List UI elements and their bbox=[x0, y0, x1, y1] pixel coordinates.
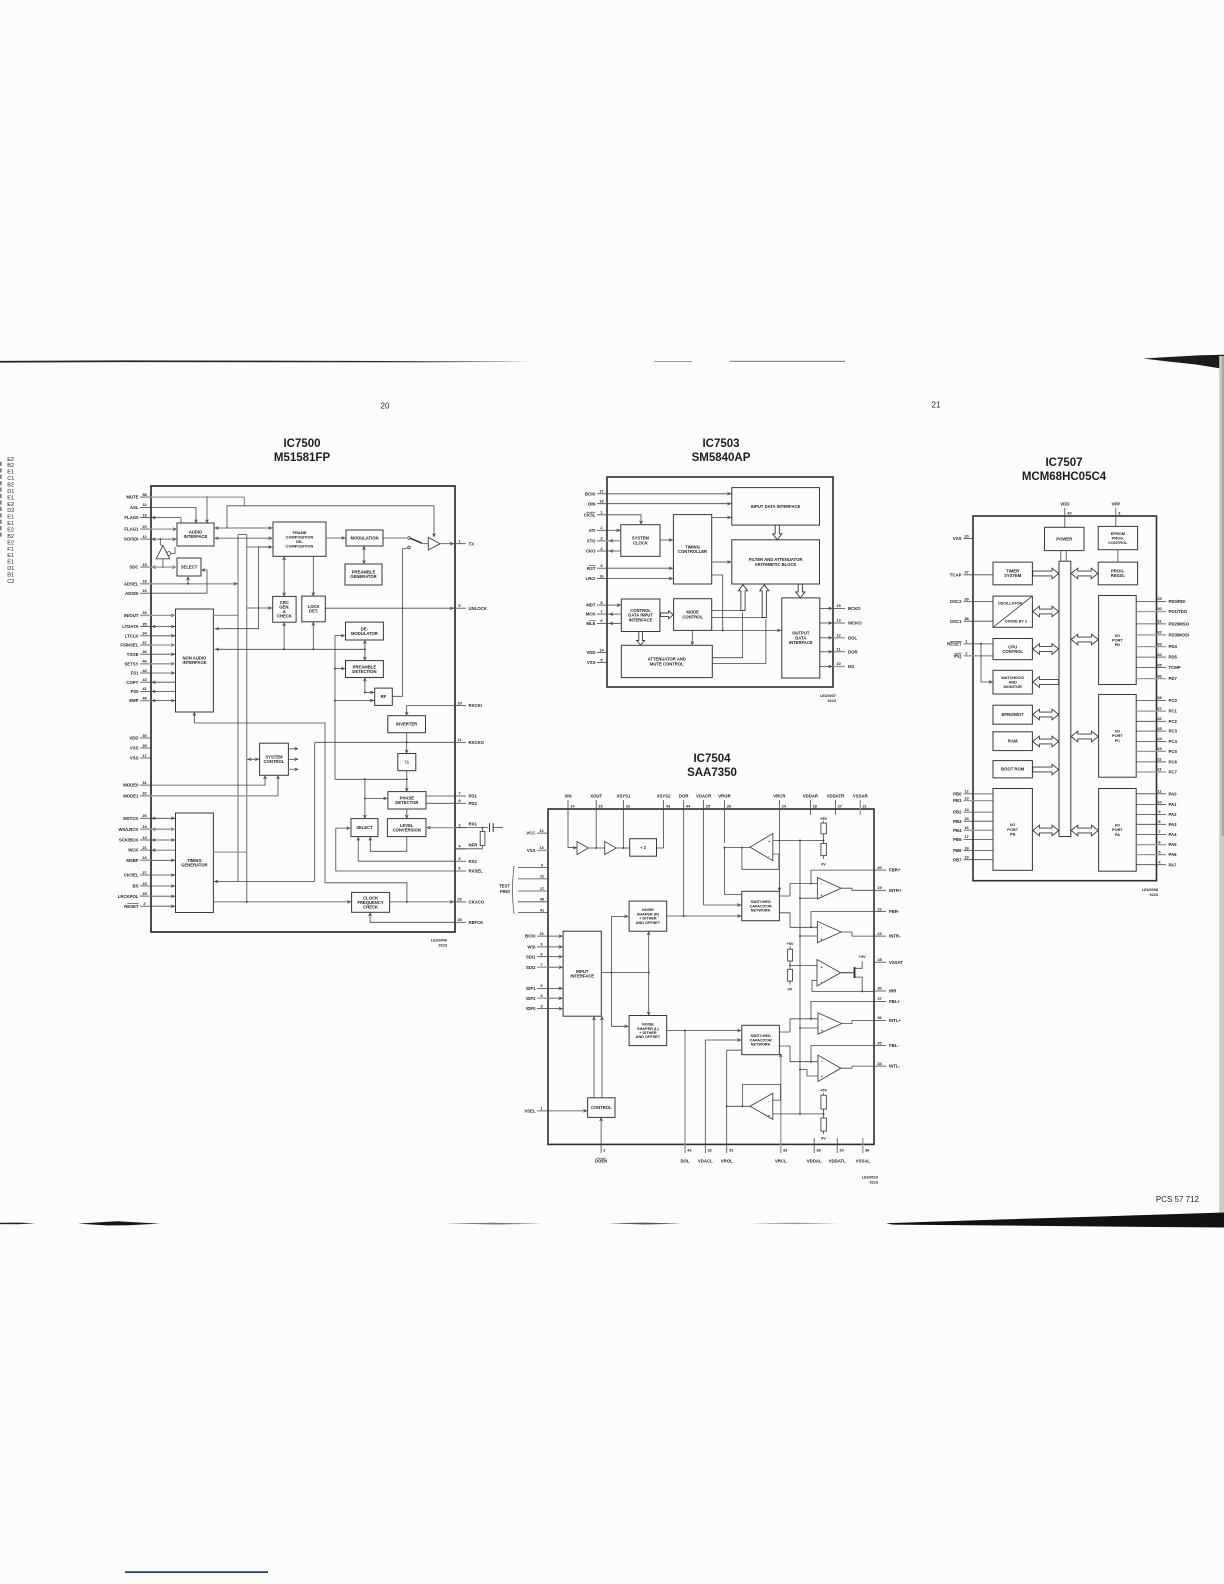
svg-text:30: 30 bbox=[1157, 606, 1161, 611]
svg-text:IDF2: IDF2 bbox=[526, 996, 536, 1001]
svg-text:GENERATOR: GENERATOR bbox=[181, 863, 207, 868]
wire system control left link bbox=[247, 758, 260, 761]
svg-text:10: 10 bbox=[539, 931, 543, 936]
svg-text:10: 10 bbox=[836, 661, 840, 666]
fat arrow mode control up to filter 1 bbox=[712, 585, 748, 611]
wire switch to TX buffer bbox=[422, 542, 455, 545]
block PHASE DETECTOR bbox=[388, 792, 426, 809]
wire scnL to INTL- minus bbox=[779, 1046, 818, 1062]
svg-text:VROL: VROL bbox=[721, 1159, 733, 1164]
svg-text:17: 17 bbox=[142, 753, 146, 758]
IC7504 pin 20 FBR+ bbox=[874, 865, 901, 873]
IC7507 pin 33 PD4 bbox=[1136, 641, 1177, 649]
opamp VRCL feedback bbox=[742, 1085, 780, 1107]
IC7503 pin 12 DOL bbox=[833, 633, 857, 641]
wire SDC horizontal bbox=[151, 566, 177, 568]
wire timing ctl to input data if bbox=[712, 516, 732, 519]
svg-text:DOL: DOL bbox=[680, 1159, 689, 1164]
IC7504 pin 36 VSSAL bbox=[856, 1138, 871, 1164]
svg-text:MCM68HC05C4: MCM68HC05C4 bbox=[1022, 471, 1107, 483]
svg-text:NFR: NFR bbox=[469, 843, 479, 848]
IC7500 pin 46 SETSY bbox=[124, 659, 151, 667]
fat arrow bus to watchdog bbox=[1033, 677, 1059, 688]
svg-text:½: ½ bbox=[405, 759, 410, 766]
svg-text:E1: E1 bbox=[7, 560, 14, 566]
wire input interface leads bbox=[548, 936, 563, 1009]
block CONTROL bbox=[588, 1098, 615, 1118]
svg-text:IDF0: IDF0 bbox=[526, 1006, 536, 1011]
wire vrcl into scn bbox=[779, 1054, 782, 1057]
svg-text:27: 27 bbox=[1157, 706, 1161, 711]
wire ADSDI to select right bbox=[151, 569, 207, 594]
bottom-right dark band bbox=[886, 1213, 1224, 1228]
block FRAME COMPOSITION DE-COMPOSITION bbox=[273, 522, 326, 556]
wire RXSEL to select bbox=[336, 827, 455, 871]
svg-text:PA7: PA7 bbox=[1169, 862, 1178, 867]
svg-text:9223: 9223 bbox=[870, 1181, 878, 1185]
svg-text:CONTROL: CONTROL bbox=[1108, 540, 1128, 545]
svg-text:MDT: MDT bbox=[586, 603, 596, 608]
svg-text:DOR: DOR bbox=[848, 649, 858, 654]
svg-text:37: 37 bbox=[142, 640, 146, 645]
wire phase det outputs bbox=[426, 796, 455, 803]
svg-text:LRCI: LRCI bbox=[585, 576, 595, 581]
svg-text:VPP: VPP bbox=[1111, 502, 1120, 507]
IC7507 pin 16 PB4 bbox=[953, 825, 993, 833]
svg-text:PD5: PD5 bbox=[1169, 655, 1178, 660]
IC7504 pin 4 IDF2 bbox=[526, 993, 548, 1001]
block LOCK DET. bbox=[302, 596, 326, 622]
IC7507 pin 31 PD2/MISO bbox=[1136, 619, 1189, 627]
svg-text:DOL: DOL bbox=[848, 635, 857, 640]
svg-text:C2: C2 bbox=[7, 579, 14, 585]
IC7504 pin 15 XOUT bbox=[590, 794, 603, 849]
svg-text:DOR: DOR bbox=[679, 794, 689, 799]
wire DIN to input data interface bbox=[607, 502, 732, 505]
svg-text:40: 40 bbox=[540, 897, 544, 902]
svg-text:SDC: SDC bbox=[129, 565, 138, 570]
IC7504 pin 20 VDDATL bbox=[829, 1138, 846, 1164]
output transistor bbox=[841, 954, 867, 991]
svg-text:SDI2: SDI2 bbox=[526, 965, 536, 970]
svg-text:21: 21 bbox=[932, 401, 941, 410]
svg-text:PA3: PA3 bbox=[1169, 822, 1178, 827]
svg-text:0V: 0V bbox=[788, 987, 793, 992]
svg-text:+5V: +5V bbox=[820, 1088, 827, 1093]
svg-text:M51581FP: M51581FP bbox=[274, 452, 331, 464]
svg-text:INTERFACE: INTERFACE bbox=[629, 618, 653, 623]
wire mode control to attenuator bbox=[691, 630, 694, 644]
svg-text:FBR+: FBR+ bbox=[889, 868, 901, 873]
block MODE CONTROL bbox=[674, 599, 712, 631]
svg-text:RXSEL: RXSEL bbox=[469, 869, 484, 874]
block SYSTEM CLOCK bbox=[621, 525, 660, 557]
svg-text:VSS: VSS bbox=[587, 660, 596, 665]
wire buffer2 to div2 bbox=[616, 847, 630, 849]
block PREAMBLE DETECTION bbox=[346, 661, 384, 678]
svg-text:VDDAR: VDDAR bbox=[803, 794, 819, 799]
IC7507 pin 24 PC4 bbox=[1136, 736, 1177, 744]
op amp VRCL left bbox=[750, 1093, 773, 1119]
svg-text:AND OFFSET: AND OFFSET bbox=[636, 921, 661, 925]
arrows into timing generator bbox=[171, 817, 174, 908]
wire XTI into system clock bbox=[607, 529, 621, 532]
op amp INTR- bbox=[817, 921, 841, 942]
block CONTROL DATA INPUT INTERFACE bbox=[621, 599, 660, 632]
wire buffer out to audio interface bbox=[171, 547, 175, 554]
wire FBL- feedback bbox=[810, 1046, 874, 1063]
svg-text:B2: B2 bbox=[7, 483, 14, 489]
wire rail to INTR- plus bbox=[800, 935, 817, 937]
TX buffer triangle bbox=[428, 537, 440, 550]
IC7500 pin 15 SDC bbox=[129, 562, 155, 570]
IC7504 pin 16 XSYS1 bbox=[617, 794, 631, 849]
top rule left segment bbox=[0, 360, 531, 362]
block IO PORT PC bbox=[1099, 695, 1137, 778]
IC7500 pin 37 FSINSEL bbox=[120, 640, 151, 648]
IC7507 pin 7 PA4 bbox=[1136, 829, 1177, 837]
IC7503 pin 10 DG bbox=[833, 661, 855, 669]
svg-text:RXCKI: RXCKI bbox=[469, 703, 482, 708]
top-right dark page-curl wedge bbox=[1143, 355, 1224, 369]
svg-text:DETECTOR: DETECTOR bbox=[395, 800, 418, 805]
svg-text:SO/SDI: SO/SDI bbox=[124, 537, 139, 542]
wire select top feed bbox=[364, 778, 367, 818]
IC7503 pin 5 VSS bbox=[587, 657, 607, 665]
IC7503 note LEU0007 bbox=[820, 694, 836, 703]
wire demod down to preamble det bbox=[364, 640, 367, 661]
IC7500 pin 5 RX2 bbox=[455, 856, 477, 864]
block DE-MODULATOR bbox=[346, 622, 384, 640]
svg-text:INTERFACE: INTERFACE bbox=[789, 640, 813, 645]
op amp IRR bbox=[817, 960, 841, 987]
IC7507 outer box bbox=[973, 516, 1157, 881]
svg-text:PC: PC bbox=[1115, 738, 1121, 743]
svg-text:INTERFACE: INTERFACE bbox=[184, 534, 208, 539]
wire buffer to SDC bbox=[162, 559, 164, 568]
wire nai bottom loop bbox=[193, 712, 407, 902]
IC7500 pin 21 WCK bbox=[128, 845, 155, 853]
block FILTER AND ATTENUATOR ARITHMETIC BLOCK bbox=[732, 540, 820, 584]
svg-text:VDD: VDD bbox=[129, 736, 138, 741]
wire ADSEL up into select bbox=[187, 577, 190, 584]
wire cross link 779 bbox=[335, 778, 407, 780]
svg-text:IC7504: IC7504 bbox=[693, 753, 731, 765]
svg-text:PA: PA bbox=[1115, 832, 1120, 837]
wire MUTE drop to audio interface bbox=[206, 496, 209, 522]
svg-text:XIN: XIN bbox=[564, 794, 571, 799]
crystal buffer 1 bbox=[577, 842, 588, 855]
svg-text:VSS: VSS bbox=[953, 536, 962, 541]
wire MUTE horizontal bbox=[151, 496, 244, 498]
svg-text:INTL-: INTL- bbox=[889, 1064, 901, 1069]
IC7507 pin 35 TCMP bbox=[1136, 662, 1181, 670]
RX1 external capacitor bbox=[455, 823, 503, 832]
block NOISE SHAPER L bbox=[629, 1016, 667, 1046]
wire scnL to INTL+ minus bbox=[779, 1019, 818, 1032]
svg-text:VDD: VDD bbox=[586, 650, 595, 655]
svg-text:27: 27 bbox=[838, 803, 842, 808]
svg-text:20: 20 bbox=[877, 865, 881, 870]
svg-text:FBR-: FBR- bbox=[889, 909, 900, 914]
svg-text:TCAP: TCAP bbox=[950, 572, 962, 577]
wire lock det down bbox=[312, 622, 315, 650]
IC7500 pin 23 BS bbox=[133, 881, 151, 889]
svg-text:E2: E2 bbox=[7, 502, 14, 508]
svg-text:PC7: PC7 bbox=[1169, 770, 1178, 775]
wire frame to lock det bbox=[312, 556, 315, 596]
svg-text:XTI: XTI bbox=[589, 528, 596, 533]
IC7504 pin 32 VDACL bbox=[698, 1040, 713, 1164]
switch blade bbox=[410, 538, 422, 543]
fat arrow oscillator bus bbox=[1033, 606, 1059, 617]
block SWITCHED CAPACITOR NETWORK L bbox=[742, 1025, 780, 1054]
svg-text:REFCK: REFCK bbox=[469, 920, 485, 925]
svg-text:FLAG0: FLAG0 bbox=[124, 515, 139, 520]
wire control risers bbox=[593, 1016, 604, 1098]
IC7507 pin 32 PD3/MOSI bbox=[1136, 630, 1189, 638]
IC7507 pin 39 OSC2 bbox=[950, 596, 993, 604]
svg-text:BOOT ROM: BOOT ROM bbox=[1001, 767, 1025, 772]
IC7507 pin 19 PB7 bbox=[953, 855, 993, 863]
svg-text:SETSY: SETSY bbox=[124, 661, 138, 666]
IC7504 pin 31 VROL bbox=[721, 1106, 734, 1164]
svg-text:ARITHMETIC BLOCK: ARITHMETIC BLOCK bbox=[755, 562, 797, 567]
svg-text:+: + bbox=[820, 965, 822, 969]
wire bottom opamp plus to divider bbox=[773, 1113, 824, 1115]
IC7507 note LEU0008 bbox=[1142, 888, 1158, 897]
svg-text:SAA7350: SAA7350 bbox=[687, 767, 737, 779]
svg-text:FBL+: FBL+ bbox=[889, 999, 900, 1004]
IC7504 pin 14 XIN bbox=[564, 794, 575, 848]
IC7504 note LEU0010 bbox=[862, 1176, 878, 1185]
svg-text:CKACO: CKACO bbox=[469, 900, 485, 905]
block CPU CONTROL bbox=[993, 639, 1032, 660]
svg-text:E1: E1 bbox=[7, 521, 14, 527]
svg-text:E2: E2 bbox=[7, 540, 14, 546]
svg-text:E1: E1 bbox=[7, 470, 14, 476]
IC7500 pin 29 CKACO bbox=[455, 897, 485, 905]
svg-text:EPROM/OT: EPROM/OT bbox=[1002, 712, 1025, 717]
IC7504 pin 23 INTR- bbox=[874, 931, 901, 939]
wire MCK out of control data if bbox=[607, 613, 621, 616]
wire timing gen input leads bbox=[151, 818, 176, 906]
svg-text:RST: RST bbox=[587, 566, 596, 571]
svg-text:CONTROL: CONTROL bbox=[1002, 649, 1023, 654]
svg-text:30: 30 bbox=[877, 986, 881, 991]
block TIMING GENERATOR bbox=[176, 813, 214, 913]
svg-text:VDDAL: VDDAL bbox=[807, 1159, 822, 1164]
block IO PORT PD bbox=[1099, 596, 1137, 685]
svg-text:PD2/MISO: PD2/MISO bbox=[1169, 622, 1190, 627]
svg-text:+5V: +5V bbox=[786, 941, 793, 946]
svg-text:PD1: PD1 bbox=[469, 794, 478, 799]
wire mode1 to system control bbox=[151, 776, 279, 796]
svg-text:E1: E1 bbox=[7, 553, 14, 559]
wire LRCI to timing controller bbox=[607, 577, 673, 580]
svg-text:7: 7 bbox=[458, 791, 460, 796]
svg-text:PCS 57 712: PCS 57 712 bbox=[1156, 1195, 1200, 1204]
svg-text:LEU0007: LEU0007 bbox=[820, 694, 836, 698]
svg-text:RESET: RESET bbox=[947, 642, 962, 647]
block INPUT DATA INTERFACE bbox=[732, 488, 820, 525]
svg-text:WCKO: WCKO bbox=[848, 621, 862, 626]
svg-text:IC7503: IC7503 bbox=[702, 438, 739, 450]
svg-text:30: 30 bbox=[142, 733, 146, 738]
IC7503 pin 7 MCK bbox=[586, 609, 607, 617]
svg-text:OSCILLATOR: OSCILLATOR bbox=[998, 602, 1023, 606]
IC7503 pin 3 XTO bbox=[587, 536, 607, 544]
IC7507 pin 40 VDD bbox=[1060, 502, 1071, 528]
svg-text:CONTROL: CONTROL bbox=[264, 759, 285, 764]
svg-text:FS0: FS0 bbox=[131, 689, 139, 694]
wire preamble det to rf bbox=[364, 678, 375, 694]
svg-text:B2: B2 bbox=[7, 534, 14, 540]
svg-text:BCKO: BCKO bbox=[848, 606, 861, 611]
svg-text:PB2: PB2 bbox=[953, 810, 962, 815]
svg-text:CONTROL: CONTROL bbox=[682, 614, 703, 619]
svg-text:20: 20 bbox=[839, 1147, 843, 1152]
IC7504 pin 7 SDI2 bbox=[526, 962, 548, 970]
block SWITCHED CAPACITOR NETWORK R bbox=[742, 891, 780, 920]
wire bus to frame composition bbox=[247, 546, 273, 549]
IC7507 pin 11 PA0 bbox=[1136, 789, 1177, 797]
fat arrow cdi to attenuator bbox=[637, 632, 645, 646]
wire audio-frame link lower bbox=[214, 537, 273, 540]
svg-text:CHECK: CHECK bbox=[363, 904, 378, 909]
svg-text:CONTROL: CONTROL bbox=[591, 1105, 612, 1110]
svg-text:+: + bbox=[820, 937, 822, 941]
wire VROR to opamp tip bbox=[724, 847, 751, 849]
wire inverter to rxcko and half bbox=[405, 733, 408, 753]
IC7500 pin 2 RESET bbox=[124, 901, 151, 909]
svg-text:VDDATR: VDDATR bbox=[827, 794, 845, 799]
svg-text:BCKI: BCKI bbox=[525, 934, 536, 939]
IC7500 pin 9 UNLOCK bbox=[455, 603, 488, 611]
IC7500 pin 14 WS/LRCK bbox=[118, 824, 155, 832]
svg-text:SYSTEM: SYSTEM bbox=[1004, 573, 1022, 578]
svg-text:PB6: PB6 bbox=[953, 848, 962, 853]
block MODULATION bbox=[346, 530, 383, 546]
IC7500 title bbox=[274, 438, 331, 464]
wire non audio input leads bbox=[151, 615, 176, 700]
svg-text:VCC: VCC bbox=[526, 831, 535, 836]
svg-text:VROR: VROR bbox=[718, 794, 731, 799]
wire VROR to scn bbox=[725, 848, 742, 895]
svg-text:MODE0: MODE0 bbox=[123, 783, 139, 788]
svg-text:DETECTION: DETECTION bbox=[352, 669, 376, 674]
IC7507 pin 13 PB1 bbox=[953, 795, 993, 803]
svg-text:VDD: VDD bbox=[1060, 502, 1069, 507]
svg-text:WSI: WSI bbox=[527, 945, 535, 950]
wire rxcko left vertical bbox=[314, 742, 316, 881]
wire phase det left input bbox=[365, 797, 388, 800]
svg-text:RESET: RESET bbox=[124, 904, 139, 909]
fat arrow bus to port pc bbox=[1071, 731, 1098, 742]
middle resistor divider bbox=[786, 941, 793, 991]
block BOOT ROM bbox=[993, 761, 1032, 778]
block POWER bbox=[1045, 527, 1085, 550]
wire level conv bottom to select bbox=[369, 837, 407, 852]
wire input if to shapers bbox=[601, 931, 650, 1015]
fat arrow filter to output-if bbox=[796, 584, 805, 598]
IC7504 pin 22 FBR- bbox=[874, 906, 900, 914]
svg-text:GENERATOR: GENERATOR bbox=[350, 574, 376, 579]
svg-text:PC5: PC5 bbox=[1169, 749, 1178, 754]
IC7504 pin 42 DOL bbox=[680, 1031, 692, 1164]
svg-text:IRR: IRR bbox=[889, 989, 897, 994]
svg-text:VSS: VSS bbox=[130, 746, 139, 751]
svg-text:FSINSEL: FSINSEL bbox=[120, 643, 139, 648]
svg-text:VDACL: VDACL bbox=[698, 1159, 713, 1164]
crystal buffer 2 bbox=[605, 842, 617, 855]
wire rail to INTL+ plus bbox=[800, 1027, 818, 1029]
reference rail vertical bbox=[799, 841, 801, 1115]
wire vdacr elbow bbox=[704, 904, 742, 907]
svg-text:DOEN: DOEN bbox=[595, 1159, 607, 1164]
svg-text:MUTE: MUTE bbox=[126, 495, 138, 500]
IC7500 pin 44 EMP bbox=[129, 695, 155, 703]
wire half to phase detector bbox=[405, 771, 408, 792]
svg-text:WCK: WCK bbox=[128, 848, 139, 853]
wire bus to crc gen bbox=[247, 607, 273, 610]
svg-text:PD1/TDO: PD1/TDO bbox=[1169, 609, 1188, 614]
block PROG REGIS bbox=[1098, 562, 1137, 585]
svg-text:NETWORK: NETWORK bbox=[751, 909, 771, 913]
svg-text:PB5: PB5 bbox=[953, 837, 962, 842]
wire XIN to buffer1 bbox=[568, 846, 577, 849]
svg-text:B2: B2 bbox=[7, 463, 14, 469]
IC7504 outer box bbox=[548, 809, 874, 1144]
IC7500 pin 58 MUTE bbox=[126, 492, 151, 500]
wire FBR+ feedback bbox=[810, 870, 874, 884]
block IO PORT PB bbox=[993, 789, 1032, 871]
block OUTPUT DATA INTERFACE bbox=[782, 598, 820, 678]
IC7507 pin 12 PB0 bbox=[953, 789, 993, 797]
wire crc feed horizontal bbox=[215, 648, 366, 651]
svg-text:+5V: +5V bbox=[820, 816, 827, 821]
IC7507 pin 21 PC7 bbox=[1136, 767, 1177, 775]
svg-text:+5V: +5V bbox=[859, 954, 866, 959]
svg-text:IC7507: IC7507 bbox=[1045, 457, 1082, 469]
svg-text:20: 20 bbox=[381, 402, 390, 411]
IC7503 pin 17 BCKI bbox=[585, 489, 607, 497]
svg-text:37: 37 bbox=[964, 570, 968, 575]
svg-text:OSC1: OSC1 bbox=[950, 619, 962, 624]
IC7503 pin 8 MDT bbox=[586, 600, 607, 608]
svg-text:XSYS2: XSYS2 bbox=[657, 794, 671, 799]
svg-text:LEU0008: LEU0008 bbox=[1142, 888, 1158, 892]
wire mid vertical taps bbox=[334, 667, 375, 702]
wire SDC into select bbox=[173, 566, 176, 569]
svg-text:PD: PD bbox=[1115, 642, 1121, 647]
svg-text:17: 17 bbox=[964, 834, 968, 839]
wire divider to opamp IRR bbox=[790, 964, 817, 966]
op amp INTR+ bbox=[817, 878, 841, 899]
svg-text:17: 17 bbox=[540, 886, 544, 891]
svg-text:MSBF: MSBF bbox=[126, 858, 139, 863]
fat arrow timer to bus bbox=[1033, 568, 1059, 579]
IC7504 test pins bracket bbox=[499, 862, 548, 914]
svg-text:BS: BS bbox=[133, 884, 139, 889]
block NOISE SHAPER R bbox=[629, 901, 667, 931]
wire rf to switch bbox=[392, 548, 408, 696]
svg-text:PD7: PD7 bbox=[1169, 676, 1178, 681]
svg-text:LEU0010: LEU0010 bbox=[862, 1176, 878, 1180]
svg-text:XSEL: XSEL bbox=[524, 1109, 536, 1114]
wire crc gen vertical bbox=[283, 622, 286, 649]
wire CKO out bbox=[607, 550, 621, 553]
